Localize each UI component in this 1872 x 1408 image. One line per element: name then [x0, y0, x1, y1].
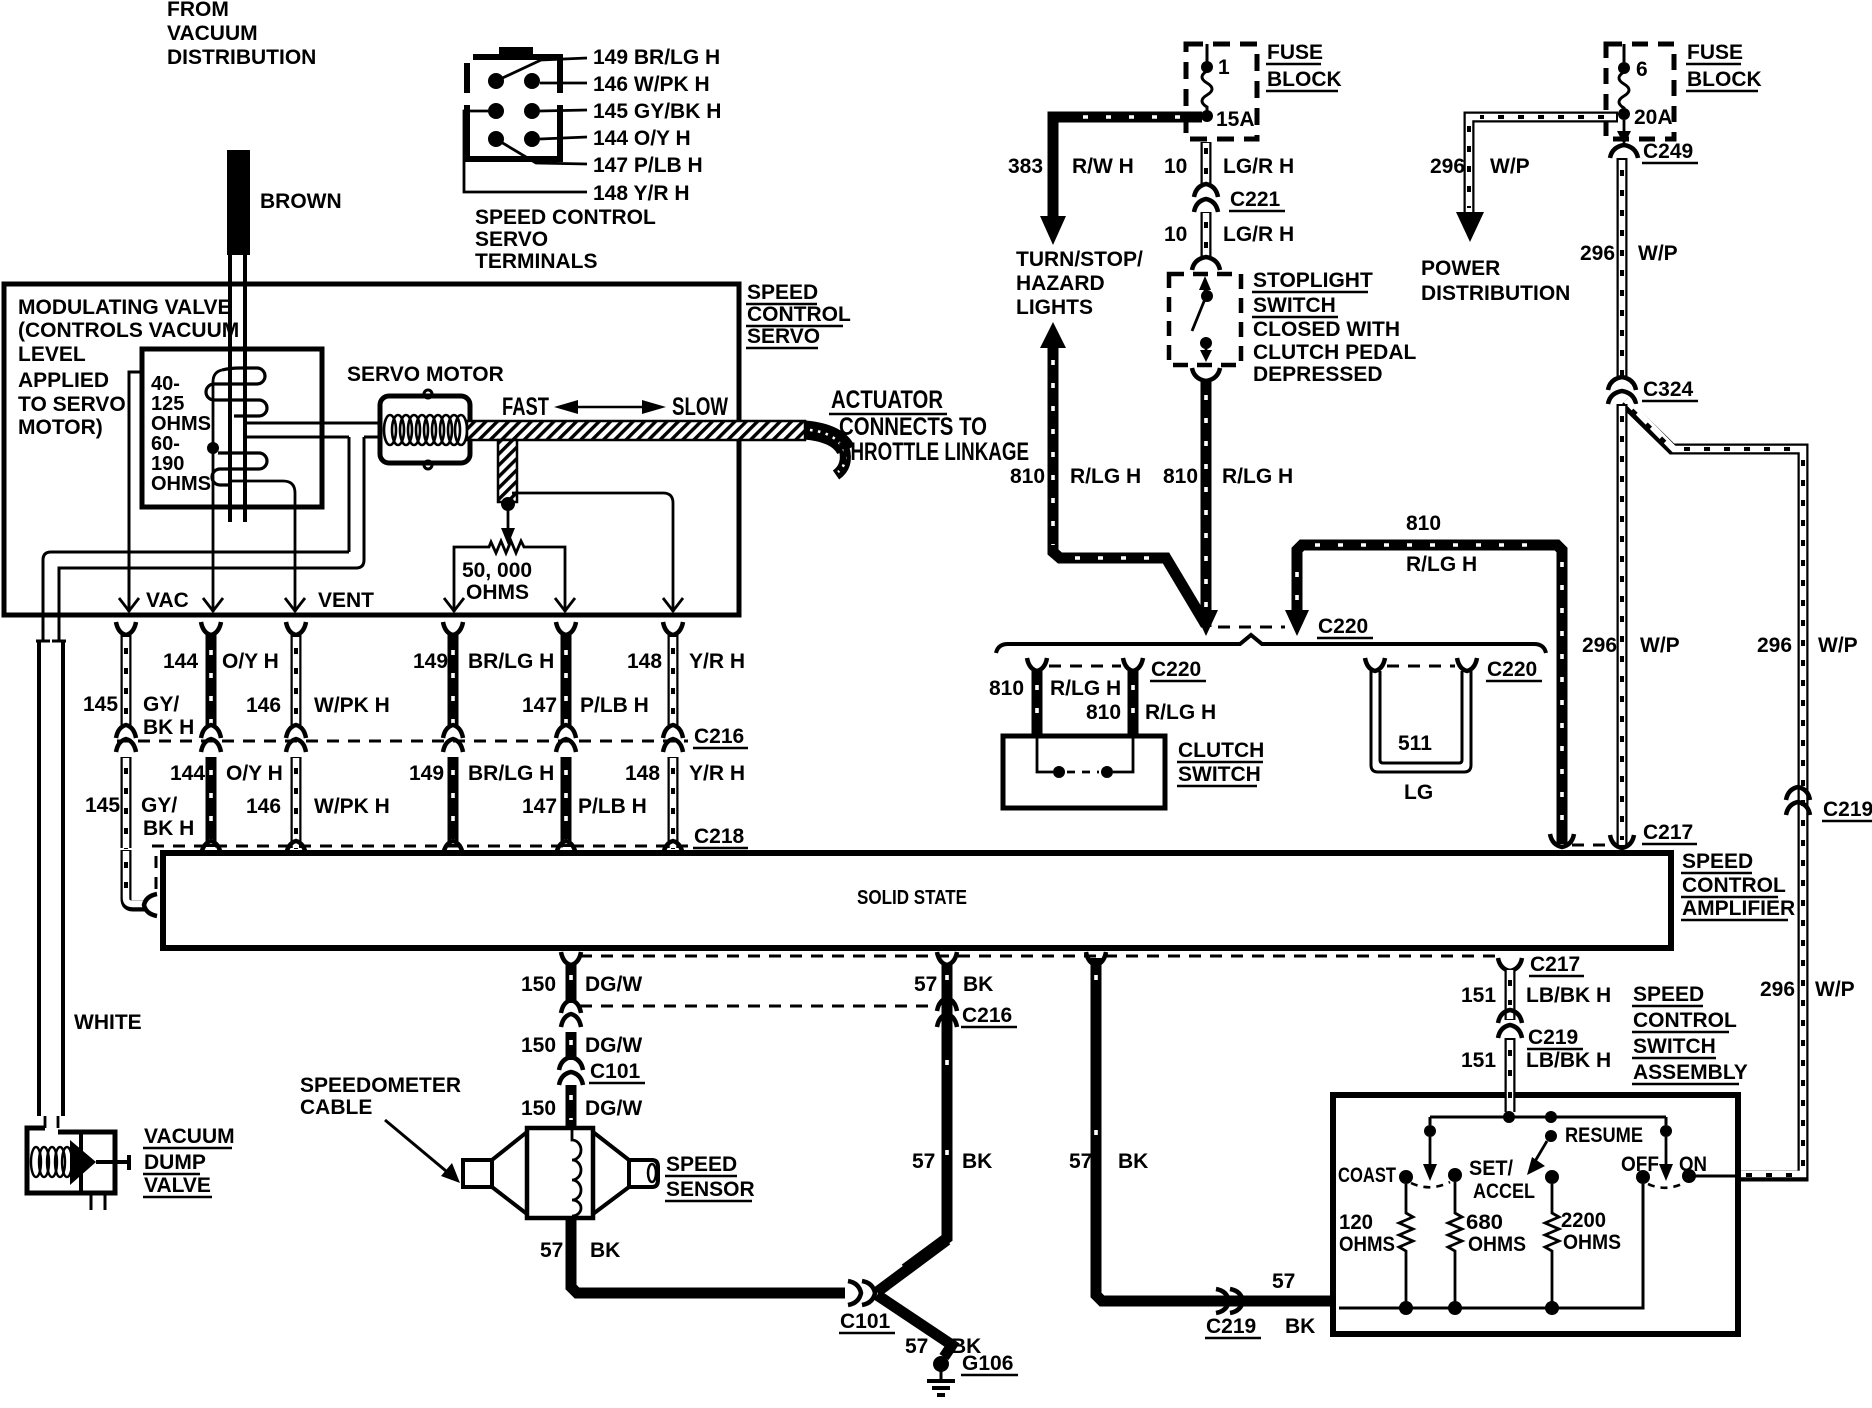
label fuse 1 / 15A	[1216, 56, 1255, 131]
contact coast	[1399, 1170, 1413, 1184]
label 383 R/W H	[1008, 155, 1134, 178]
label SPEED CONTROL SERVO TERMINALS	[475, 206, 656, 273]
svg-text:W/P: W/P	[1638, 242, 1678, 265]
label 2200 OHMS	[1561, 1209, 1621, 1254]
svg-text:2200: 2200	[1561, 1209, 1606, 1232]
resistor 680 ohms	[1448, 1182, 1462, 1308]
vacuum dump valve	[27, 1128, 129, 1210]
svg-text:511: 511	[1398, 732, 1432, 755]
label C216 (57 wire)	[961, 1004, 1017, 1027]
servo motor	[380, 390, 470, 469]
svg-text:POWER: POWER	[1421, 257, 1500, 280]
label FAST SLOW with arrow	[502, 393, 728, 421]
svg-text:383: 383	[1008, 155, 1043, 178]
svg-text:BR/LG H: BR/LG H	[468, 762, 554, 785]
svg-text:BLOCK: BLOCK	[1687, 68, 1762, 91]
svg-text:DISTRIBUTION: DISTRIBUTION	[167, 46, 316, 69]
connector C220 (511 loop)	[1365, 658, 1477, 671]
label 296 W/P (middle)	[1580, 242, 1678, 265]
connector C216 row	[116, 725, 688, 752]
svg-text:296: 296	[1582, 634, 1617, 657]
svg-text:145: 145	[83, 693, 118, 716]
connector C217 (151 wire)	[1498, 958, 1522, 971]
svg-text:R/W H: R/W H	[1072, 155, 1134, 178]
connector speed control servo terminals	[464, 47, 564, 159]
svg-text:MOTOR): MOTOR)	[18, 416, 103, 439]
leader 149	[496, 58, 587, 81]
svg-text:OHMS: OHMS	[1468, 1233, 1526, 1256]
wire 148 Y/R column	[663, 622, 683, 725]
svg-text:WHITE: WHITE	[74, 1011, 142, 1034]
svg-text:Y/R H: Y/R H	[689, 650, 745, 673]
svg-text:VENT: VENT	[318, 589, 374, 612]
label row2 145 GY/BK / 146 W/PK H / 147 P/LB H	[85, 794, 647, 840]
label C218	[693, 825, 748, 848]
label fuse 6 / 20A	[1634, 58, 1673, 129]
wire 383 R/W H	[1040, 117, 1202, 245]
connector C249	[1610, 145, 1638, 158]
wire 296 W/P to power distribution	[1456, 117, 1618, 242]
label 810 R/LG H (loop)	[1406, 512, 1477, 576]
svg-text:C101: C101	[840, 1310, 891, 1333]
wire 147 segment 2	[561, 757, 572, 849]
wire 810 R/LG H to clutch switch (left)	[1032, 671, 1043, 738]
svg-text:60-: 60-	[151, 433, 180, 455]
label SPEED CONTROL SWITCH ASSEMBLY	[1632, 983, 1748, 1084]
wire 57 BK (amplifier to C101)	[905, 952, 957, 1269]
svg-text:R/LG H: R/LG H	[1050, 677, 1121, 700]
leader 147	[496, 139, 587, 164]
speed sensor	[463, 1128, 658, 1218]
svg-text:150: 150	[521, 973, 556, 996]
label STOPLIGHT SWITCH CLOSED WITH CLUTCH PEDAL DEPRESSED	[1252, 269, 1416, 386]
node 151 feed	[1430, 1111, 1666, 1123]
switch on arm	[1659, 1117, 1673, 1181]
label C101 (junction)	[839, 1310, 895, 1333]
svg-text:296: 296	[1760, 978, 1795, 1001]
svg-text:57: 57	[912, 1150, 935, 1173]
clutch switch box	[1003, 736, 1165, 808]
svg-text:LB/BK H: LB/BK H	[1526, 1049, 1611, 1072]
svg-text:680: 680	[1466, 1211, 1503, 1234]
pin 144	[524, 103, 540, 119]
label C221	[1229, 188, 1285, 211]
connector C217 dashed run below amplifier	[580, 955, 1496, 958]
svg-text:FUSE: FUSE	[1267, 41, 1323, 64]
svg-text:148 Y/R H: 148 Y/R H	[593, 182, 690, 205]
label SPEEDOMETER CABLE with arrow	[300, 1074, 461, 1183]
tube brown inside valve	[230, 352, 245, 522]
wire 810 R/LG H to clutch switch (right)	[1128, 671, 1139, 738]
label SET/ACCEL	[1469, 1157, 1535, 1203]
svg-text:BK H: BK H	[143, 817, 194, 840]
node FROM VACUUM DISTRIBUTION	[167, 0, 316, 69]
coil modulating valve upper	[206, 368, 267, 416]
wire junction to 148	[512, 493, 673, 612]
label SPEED SENSOR	[665, 1153, 755, 1201]
wire 57 BK diagonal up to amplifier	[877, 1240, 947, 1292]
label G106	[961, 1352, 1018, 1375]
svg-text:O/Y H: O/Y H	[226, 762, 283, 785]
svg-text:BK: BK	[590, 1239, 620, 1262]
brace harness C220	[996, 635, 1546, 653]
svg-text:810: 810	[1086, 701, 1121, 724]
wire 10 LG/R H upper	[1201, 142, 1212, 186]
svg-text:CLOSED WITH: CLOSED WITH	[1253, 318, 1400, 341]
svg-text:GY/: GY/	[143, 693, 179, 716]
label C219 (151 wire)	[1527, 1026, 1583, 1049]
svg-text:RESUME: RESUME	[1565, 1124, 1643, 1147]
svg-text:BK: BK	[962, 1150, 992, 1173]
label 40-125 OHMS 60-190 OHMS	[151, 373, 211, 495]
svg-text:VALVE: VALVE	[144, 1174, 211, 1197]
wire 810 R/LG H (to hazard)	[1040, 322, 1206, 625]
contact off	[1636, 1170, 1650, 1184]
label 810 R/LG H (left)	[1010, 465, 1141, 488]
svg-text:DUMP: DUMP	[144, 1151, 206, 1174]
svg-text:150: 150	[521, 1034, 556, 1057]
svg-text:VACUUM: VACUUM	[167, 22, 258, 45]
svg-text:DG/W: DG/W	[585, 1034, 642, 1057]
label row2 144 O/Y H / 149 BR/LG H / 148 Y/R H	[170, 762, 745, 785]
svg-text:R/LG H: R/LG H	[1145, 701, 1216, 724]
svg-text:Y/R H: Y/R H	[689, 762, 745, 785]
svg-text:146 W/PK H: 146 W/PK H	[593, 73, 710, 96]
resistor 120 ohms	[1399, 1184, 1413, 1308]
wire 148 segment 2	[668, 757, 679, 849]
connector C220 dashes	[1218, 626, 1285, 629]
svg-text:149: 149	[409, 762, 444, 785]
connector C220 left pair	[1027, 658, 1143, 671]
pin 148	[524, 131, 540, 147]
svg-text:LG/R H: LG/R H	[1223, 223, 1294, 246]
contact on	[1682, 1169, 1696, 1183]
label 296 W/P (lower right)	[1760, 978, 1855, 1001]
pin 147	[488, 131, 504, 147]
svg-text:OHMS: OHMS	[466, 581, 529, 604]
svg-text:15A: 15A	[1216, 108, 1255, 131]
fuse 1 15A	[1201, 61, 1213, 122]
fuse 6 20A	[1618, 62, 1630, 120]
label C219 BK	[1205, 1315, 1315, 1338]
svg-text:GY/: GY/	[141, 794, 177, 817]
svg-text:STOPLIGHT: STOPLIGHT	[1253, 269, 1373, 292]
leader 148	[464, 111, 587, 192]
label 150 DG/W x3	[521, 973, 642, 1120]
svg-text:C219: C219	[1823, 798, 1872, 821]
connector C218 row	[152, 841, 688, 855]
svg-text:SPEED: SPEED	[1682, 850, 1753, 873]
switch resume arm	[1527, 1130, 1557, 1175]
svg-text:125: 125	[151, 393, 184, 415]
svg-text:120: 120	[1339, 1211, 1373, 1234]
svg-text:190: 190	[151, 453, 184, 475]
label 57 BK (sensor)	[540, 1239, 620, 1262]
wire 296 W/P branch to right	[1624, 400, 1803, 1176]
svg-text:810: 810	[1163, 465, 1198, 488]
svg-text:LIGHTS: LIGHTS	[1016, 296, 1093, 319]
svg-text:10: 10	[1164, 223, 1187, 246]
svg-text:COAST: COAST	[1338, 1164, 1396, 1187]
svg-text:SENSOR: SENSOR	[666, 1178, 755, 1201]
svg-text:LG: LG	[1404, 781, 1433, 804]
svg-text:OHMS: OHMS	[151, 473, 211, 495]
svg-text:OHMS: OHMS	[1563, 1231, 1621, 1254]
label row 144 O/Y H / 149 BR/LG H / 148 Y/R H	[163, 650, 745, 673]
svg-text:DG/W: DG/W	[585, 973, 642, 996]
svg-text:(CONTROLS VACUUM: (CONTROLS VACUUM	[18, 319, 239, 342]
svg-text:R/LG H: R/LG H	[1406, 553, 1477, 576]
svg-text:W/P: W/P	[1815, 978, 1855, 1001]
svg-text:C216: C216	[694, 725, 744, 748]
svg-text:FAST: FAST	[502, 393, 549, 421]
svg-text:TERMINALS: TERMINALS	[475, 250, 598, 273]
svg-text:P/LB H: P/LB H	[578, 795, 647, 818]
connector below stoplight switch	[1192, 368, 1220, 381]
resistor 2200 ohms	[1545, 1184, 1559, 1308]
svg-text:151: 151	[1461, 984, 1496, 1007]
svg-text:AMPLIFIER: AMPLIFIER	[1682, 897, 1795, 920]
label 10 LG/R H lower	[1164, 223, 1294, 246]
svg-text:C324: C324	[1643, 378, 1694, 401]
svg-text:SPEED CONTROL: SPEED CONTROL	[475, 206, 656, 229]
svg-text:R/LG H: R/LG H	[1070, 465, 1141, 488]
svg-text:148: 148	[627, 650, 662, 673]
junction actuator feedback	[501, 497, 515, 545]
label C220 (511 loop)	[1486, 658, 1542, 681]
svg-text:810: 810	[1406, 512, 1441, 535]
pin 146	[524, 73, 540, 89]
label CLUTCH SWITCH	[1177, 739, 1264, 786]
coil modulating valve lower	[212, 453, 267, 485]
contact set/accel	[1448, 1168, 1462, 1182]
wire 144 O/Y column	[201, 622, 221, 727]
svg-text:BK: BK	[1285, 1315, 1315, 1338]
svg-text:20A: 20A	[1634, 106, 1673, 129]
wire 146 segment 2	[291, 757, 302, 849]
dashed wiper coast-set	[1411, 1182, 1450, 1187]
svg-text:SPEED: SPEED	[1633, 983, 1704, 1006]
label 50,000 OHMS	[462, 559, 532, 604]
label FUSE BLOCK (right)	[1686, 41, 1762, 91]
contact 2200	[1545, 1170, 1559, 1184]
wire 296 W/P (C249 to C324)	[1617, 158, 1628, 378]
svg-text:TURN/STOP/: TURN/STOP/	[1016, 248, 1143, 271]
svg-text:W/P: W/P	[1640, 634, 1680, 657]
svg-text:P/LB H: P/LB H	[580, 694, 649, 717]
svg-text:BLOCK: BLOCK	[1267, 68, 1342, 91]
dashed wiper off-on	[1648, 1183, 1684, 1188]
label row 145 GY/BK / 146 W/PK H / 147 P/LB H	[83, 693, 649, 739]
label POWER DISTRIBUTION	[1421, 257, 1570, 305]
switch coast arm	[1423, 1117, 1437, 1181]
svg-text:810: 810	[989, 677, 1024, 700]
svg-text:R/LG H: R/LG H	[1222, 465, 1293, 488]
svg-text:SERVO: SERVO	[475, 228, 548, 251]
wire VAC	[119, 372, 142, 612]
label C249	[1642, 140, 1698, 163]
label 57 BK (switch wire)	[1069, 1150, 1148, 1173]
svg-text:SPEED: SPEED	[747, 281, 818, 304]
connector C101 (57 junction)	[848, 1281, 875, 1305]
svg-text:LG/R H: LG/R H	[1223, 155, 1294, 178]
svg-text:W/PK H: W/PK H	[314, 795, 390, 818]
svg-text:SPEEDOMETER: SPEEDOMETER	[300, 1074, 461, 1097]
svg-text:CONTROL: CONTROL	[1682, 874, 1786, 897]
wire 144 segment 2	[206, 757, 217, 849]
svg-text:G106: G106	[962, 1352, 1013, 1375]
svg-text:CLUTCH: CLUTCH	[1178, 739, 1264, 762]
svg-text:149 BR/LG H: 149 BR/LG H	[593, 46, 720, 69]
label SPEED CONTROL SERVO	[746, 281, 851, 348]
wire on to edge	[1694, 1175, 1735, 1178]
wire 57 BK diagonal to ground	[877, 1295, 952, 1357]
svg-text:W/PK H: W/PK H	[314, 694, 390, 717]
wire 10 LG/R H lower	[1201, 212, 1212, 258]
svg-text:HAZARD: HAZARD	[1016, 272, 1105, 295]
svg-text:SERVO MOTOR: SERVO MOTOR	[347, 363, 504, 386]
arrow below fuse 2	[1617, 120, 1631, 145]
svg-text:CABLE: CABLE	[300, 1096, 372, 1119]
svg-text:151: 151	[1461, 1049, 1496, 1072]
label C324	[1642, 378, 1698, 401]
actuator rod (hatched)	[467, 421, 846, 502]
svg-text:57: 57	[540, 1239, 563, 1262]
svg-text:LB/BK H: LB/BK H	[1526, 984, 1611, 1007]
svg-text:VACUUM: VACUUM	[144, 1125, 235, 1148]
svg-text:CLUTCH PEDAL: CLUTCH PEDAL	[1253, 341, 1416, 364]
wire coil tap to 144	[203, 370, 223, 612]
svg-text:O/Y H: O/Y H	[222, 650, 279, 673]
label FUSE BLOCK (left)	[1266, 41, 1342, 91]
label C216	[693, 725, 748, 748]
svg-text:C219: C219	[1528, 1026, 1578, 1049]
wire 147 P/LB column	[556, 622, 576, 727]
fuse block 1	[1186, 44, 1257, 139]
label 810 R/LG H (clutch right)	[1086, 701, 1216, 724]
svg-text:DEPRESSED: DEPRESSED	[1253, 363, 1383, 386]
connector into stoplight switch	[1192, 257, 1220, 270]
box speed control servo	[4, 284, 739, 615]
label TURN/STOP/HAZARD LIGHTS	[1016, 248, 1143, 319]
pin 145	[488, 103, 504, 119]
svg-text:SET/: SET/	[1469, 1157, 1513, 1180]
svg-text:FROM: FROM	[167, 0, 229, 21]
svg-text:147: 147	[522, 694, 557, 717]
svg-text:BK: BK	[1118, 1150, 1148, 1173]
svg-text:BK: BK	[963, 973, 993, 996]
label VACUUM DUMP VALVE	[143, 1125, 235, 1197]
svg-text:144: 144	[170, 762, 205, 785]
label C220	[1317, 615, 1373, 638]
label 57 BK (middle)	[912, 1150, 992, 1173]
svg-text:APPLIED: APPLIED	[18, 369, 109, 392]
svg-text:SERVO: SERVO	[747, 325, 820, 348]
label MODULATING VALVE (CONTROLS VACUUM LEVEL APPLIED TO SERVO MOTOR)	[18, 296, 239, 439]
svg-text:BK H: BK H	[143, 716, 194, 739]
svg-text:DISTRIBUTION: DISTRIBUTION	[1421, 282, 1570, 305]
label 120 OHMS	[1339, 1211, 1395, 1256]
svg-text:ASSEMBLY: ASSEMBLY	[1633, 1061, 1748, 1084]
svg-text:144 O/Y H: 144 O/Y H	[593, 127, 691, 150]
svg-text:810: 810	[1010, 465, 1045, 488]
pin 149	[488, 73, 504, 89]
label C219 (right wire)	[1822, 798, 1872, 821]
wire 511 LG loop	[1371, 671, 1471, 772]
svg-text:144: 144	[163, 650, 198, 673]
stoplight switch box	[1169, 274, 1241, 365]
label SPEED CONTROL AMPLIFIER	[1681, 850, 1795, 920]
label 296 W/P (far right)	[1757, 634, 1858, 657]
wire 296 W/P down from C324	[1610, 404, 1634, 848]
svg-text:C218: C218	[694, 825, 745, 848]
svg-text:145: 145	[85, 794, 120, 817]
svg-text:50, 000: 50, 000	[462, 559, 532, 582]
label 296 W/P (power)	[1430, 155, 1530, 178]
svg-text:146: 146	[246, 694, 281, 717]
svg-text:W/P: W/P	[1818, 634, 1858, 657]
svg-text:SOLID STATE: SOLID STATE	[857, 887, 967, 909]
svg-text:40-: 40-	[151, 373, 180, 395]
wire 146 W/PK column	[286, 622, 306, 725]
clutch switch contacts	[1037, 738, 1133, 778]
label 57 BK (top)	[914, 973, 993, 996]
svg-text:CONTROL: CONTROL	[747, 303, 851, 326]
label 680 OHMS	[1466, 1211, 1526, 1256]
svg-text:C220: C220	[1487, 658, 1537, 681]
svg-text:ACCEL: ACCEL	[1473, 1180, 1535, 1203]
ground G106	[927, 1356, 955, 1395]
wire 150 DG/W (amplifier to sensor)	[559, 952, 583, 1128]
label C217 (151 wire)	[1529, 953, 1584, 976]
svg-text:57: 57	[1069, 1150, 1092, 1173]
svg-text:SWITCH: SWITCH	[1178, 763, 1261, 786]
wire 145 GY/BK column	[116, 622, 136, 725]
svg-text:TO SERVO: TO SERVO	[18, 393, 126, 416]
svg-text:C220: C220	[1318, 615, 1368, 638]
leader 146	[540, 82, 587, 85]
svg-text:W/P: W/P	[1490, 155, 1530, 178]
svg-text:THROTTLE LINKAGE: THROTTLE LINKAGE	[839, 438, 1029, 466]
svg-text:1: 1	[1218, 56, 1230, 79]
box modulating valve	[142, 349, 322, 507]
fuse block 2	[1606, 44, 1674, 139]
svg-text:10: 10	[1164, 155, 1187, 178]
connector C217 (top of amplifier)	[1572, 821, 1697, 845]
svg-text:FUSE: FUSE	[1687, 41, 1743, 64]
connector C219 (57 wire)	[1216, 1289, 1243, 1313]
svg-text:296: 296	[1757, 634, 1792, 657]
wire 810 R/LG H (stoplight to C220)	[1194, 381, 1218, 636]
svg-text:CONNECTS TO: CONNECTS TO	[839, 413, 987, 441]
svg-text:147 P/LB H: 147 P/LB H	[593, 154, 703, 177]
wire 149 segment 2	[448, 757, 459, 849]
svg-text:146: 146	[246, 795, 281, 818]
svg-text:149: 149	[413, 650, 448, 673]
label 57 BK (ground)	[905, 1335, 981, 1358]
svg-text:57: 57	[905, 1335, 928, 1358]
label C101 (inline)	[589, 1060, 645, 1083]
label ACTUATOR CONNECTS TO THROTTLE LINKAGE	[829, 386, 1029, 466]
stoplight switch contacts	[1192, 276, 1213, 362]
svg-text:57: 57	[914, 973, 937, 996]
svg-text:SLOW: SLOW	[672, 393, 728, 421]
svg-text:C221: C221	[1230, 188, 1281, 211]
resistor 50000 ohms	[444, 541, 575, 612]
connector C324	[1608, 377, 1636, 404]
svg-text:C220: C220	[1151, 658, 1201, 681]
connector C219 on right wire	[1786, 787, 1810, 815]
